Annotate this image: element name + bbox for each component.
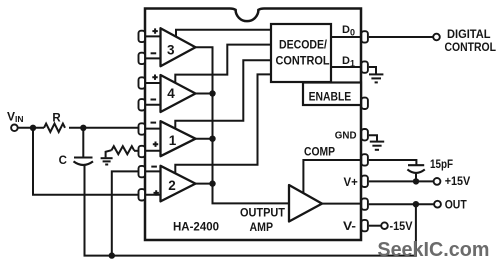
pin U4 - input [139,99,146,110]
svg-text:V+: V+ [344,177,359,189]
pin U1 - input [139,123,146,134]
terminal circle VIN [11,125,18,132]
U4 - sign [151,99,157,101]
pin U1 + input [139,146,146,157]
wire D0 pin to digital control terminal [369,36,434,38]
svg-text:GND: GND [335,130,357,142]
ENABLE block [303,83,361,106]
ground symbol at D1 [369,74,383,82]
wire U4 output [196,93,213,95]
svg-text:-15V: -15V [390,221,413,233]
U1 - input wire [144,128,161,130]
select wire U4 from decode [175,45,271,83]
capacitor C top plate [74,156,93,158]
pin D0 [361,31,368,42]
resistor R2 to ground at U1 + input [134,150,139,152]
wire decode to D1 pin [331,66,361,68]
op-amp U4 triangle [161,75,196,112]
pin OUT [361,198,368,209]
op-amp U1 triangle [161,121,196,156]
svg-text:OUTPUT: OUTPUT [240,206,286,220]
op-amp U3 triangle [161,28,196,66]
output bus wire U3 output to output amp input [196,47,290,203]
svg-text:V-: V- [343,221,356,233]
svg-text:+15V: +15V [445,176,471,188]
svg-text:COMP: COMP [304,147,335,159]
wire VIN node down and right to U2 + input pin [33,128,139,195]
svg-text:OUT: OUT [445,200,467,212]
terminal circle digital control [433,34,440,41]
svg-text:CONTROL: CONTROL [276,54,330,68]
junction dot U1 output [209,136,215,142]
junction dot cap to V+ [413,178,419,184]
output amp output wire to OUT pin [322,203,362,205]
svg-text:1: 1 [169,133,177,148]
ground symbol at U1 + resistor [101,158,113,164]
svg-text:2: 2 [168,178,176,193]
pin U2 + input [139,189,146,200]
select wire U3 from decode [176,30,271,37]
wire V- pin to -15V terminal [369,225,381,227]
wire GND pin to ground [369,135,377,141]
svg-text:AMP: AMP [250,220,274,234]
capacitor C bottom lead to feedback rail [85,166,416,256]
junction dot U4 output [209,90,215,96]
pin ENABLE [361,98,368,109]
wire U2 output [196,183,213,185]
junction dot R C node [80,125,86,131]
capacitor C top lead [82,128,84,157]
U1 + sign [153,142,158,147]
capacitor C2 bottom lead [415,174,417,182]
U3 + input wire [144,35,161,37]
junction dot VIN node [30,125,36,131]
capacitor C2 15pF top plate [408,164,424,166]
U3 - sign [151,52,157,54]
terminal circle -15V [381,222,388,229]
U3 - input wire [144,57,161,59]
pin COMP [361,154,368,165]
wire decode to D0 pin [331,36,361,38]
svg-text:15pF: 15pF [430,159,453,171]
junction dot OUT feedback [413,201,419,207]
pin V+ [361,176,368,187]
svg-text:3: 3 [167,43,175,58]
U4 + input wire [144,82,161,84]
U1 - sign [151,122,157,124]
wire COMP pin to 15pF cap [369,160,417,165]
IC package HA-2400 outline with notch [145,9,361,241]
svg-text:4: 4 [167,86,175,101]
COMP internal wire to output amp top [303,160,362,193]
junction dot U2 output [209,180,215,186]
pin D1 [361,61,368,72]
U4 + sign [152,75,157,80]
ground symbol at GND pin [370,142,384,150]
U2 - sign [151,166,157,168]
capacitor C2 curved plate [407,169,424,173]
wire U1 output [196,138,213,140]
U2 + input wire [144,194,161,196]
terminal circle +15V [434,178,441,185]
U1 + input wire [144,150,161,152]
wire V+ pin to +15V terminal [369,180,434,182]
wire OUT pin to OUT terminal [369,203,434,205]
resistor R zigzag [44,124,65,132]
U4 - input wire [144,104,161,106]
junction dot rail U2 feedback [109,252,115,258]
wire rail up to U2 - input pin [112,171,139,255]
capacitor C curved plate [74,161,94,165]
svg-text:R: R [52,113,61,125]
svg-text:ENABLE: ENABLE [309,90,352,104]
svg-text:C: C [59,155,67,167]
pin U2 - input [139,166,146,177]
OUTPUT AMP triangle [289,185,322,222]
terminal circle OUT [434,201,441,208]
U2 - input wire [144,170,161,172]
U3 + sign [152,28,157,33]
svg-text:HA-2400: HA-2400 [173,219,219,233]
pin V- [361,220,368,231]
wire VIN to resistor R [18,127,44,129]
select wire U1 from decode [175,60,271,129]
pin U3 - input [139,53,146,64]
svg-text:SeekIC.com: SeekIC.com [377,238,489,261]
pin U3 + input [139,31,146,42]
svg-text:DIGITAL: DIGITAL [447,29,491,41]
wire D1 pin to ground [369,67,376,74]
pin GND [361,129,368,140]
wire R to U1 - input pin [69,127,139,129]
op-amp U2 triangle [161,166,196,202]
pin U4 + input [139,77,146,88]
svg-text:CONTROL: CONTROL [445,42,497,54]
DECODE/CONTROL block [271,24,331,82]
select wire U2 from decode [175,74,271,173]
svg-text:DECODE/: DECODE/ [279,38,328,52]
U2 + sign [154,190,159,195]
